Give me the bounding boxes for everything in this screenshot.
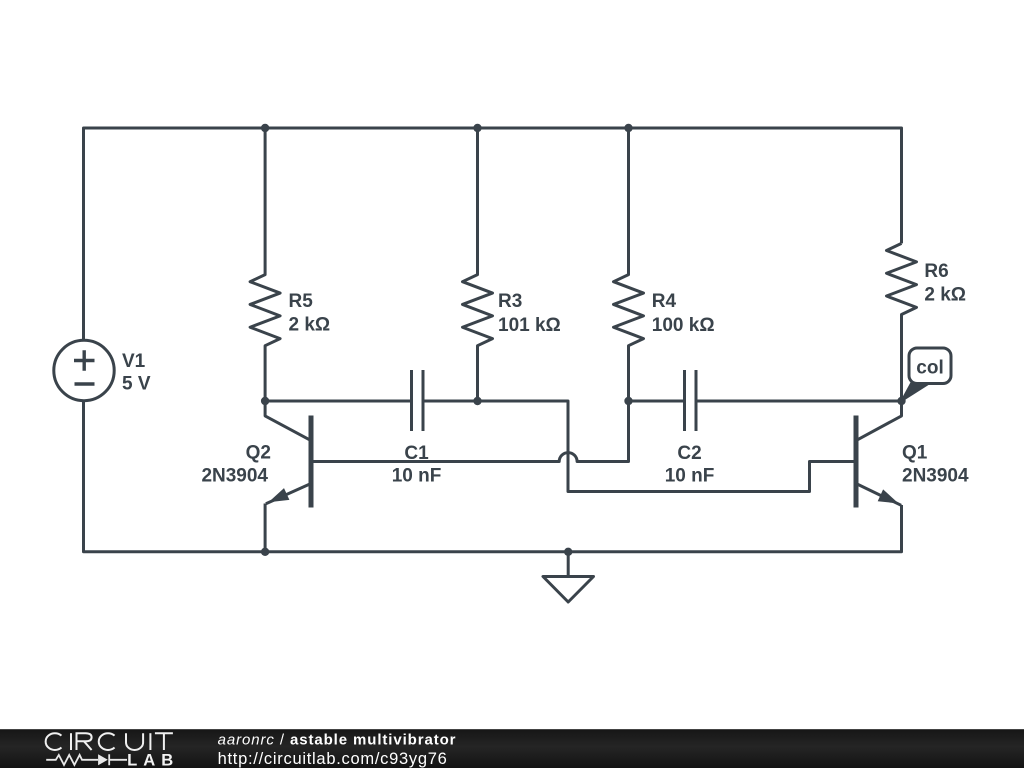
svg-text:10 nF: 10 nF (665, 466, 715, 487)
svg-text:R5: R5 (289, 291, 314, 312)
svg-text:col: col (916, 358, 943, 379)
svg-text:2N3904: 2N3904 (201, 466, 268, 487)
svg-text:101 kΩ: 101 kΩ (498, 315, 561, 336)
svg-text:http://circuitlab.com/c93yg76: http://circuitlab.com/c93yg76 (218, 750, 448, 768)
svg-text:5 V: 5 V (122, 374, 151, 395)
svg-text:2 kΩ: 2 kΩ (924, 285, 966, 306)
svg-text:R6: R6 (924, 261, 948, 282)
svg-text:100 kΩ: 100 kΩ (652, 315, 715, 336)
svg-text:2 kΩ: 2 kΩ (289, 315, 331, 336)
svg-text:aaronrc / astable multivibrato: aaronrc / astable multivibrator (218, 732, 457, 749)
svg-text:10 nF: 10 nF (392, 466, 442, 487)
svg-text:R4: R4 (652, 291, 677, 312)
svg-text:C1: C1 (404, 443, 429, 464)
svg-text:2N3904: 2N3904 (902, 466, 969, 487)
svg-text:Q1: Q1 (902, 443, 928, 464)
svg-text:Q2: Q2 (246, 443, 271, 464)
svg-text:LAB: LAB (127, 750, 179, 768)
svg-text:V1: V1 (122, 351, 146, 372)
svg-text:R3: R3 (498, 291, 522, 312)
svg-text:C2: C2 (677, 443, 701, 464)
